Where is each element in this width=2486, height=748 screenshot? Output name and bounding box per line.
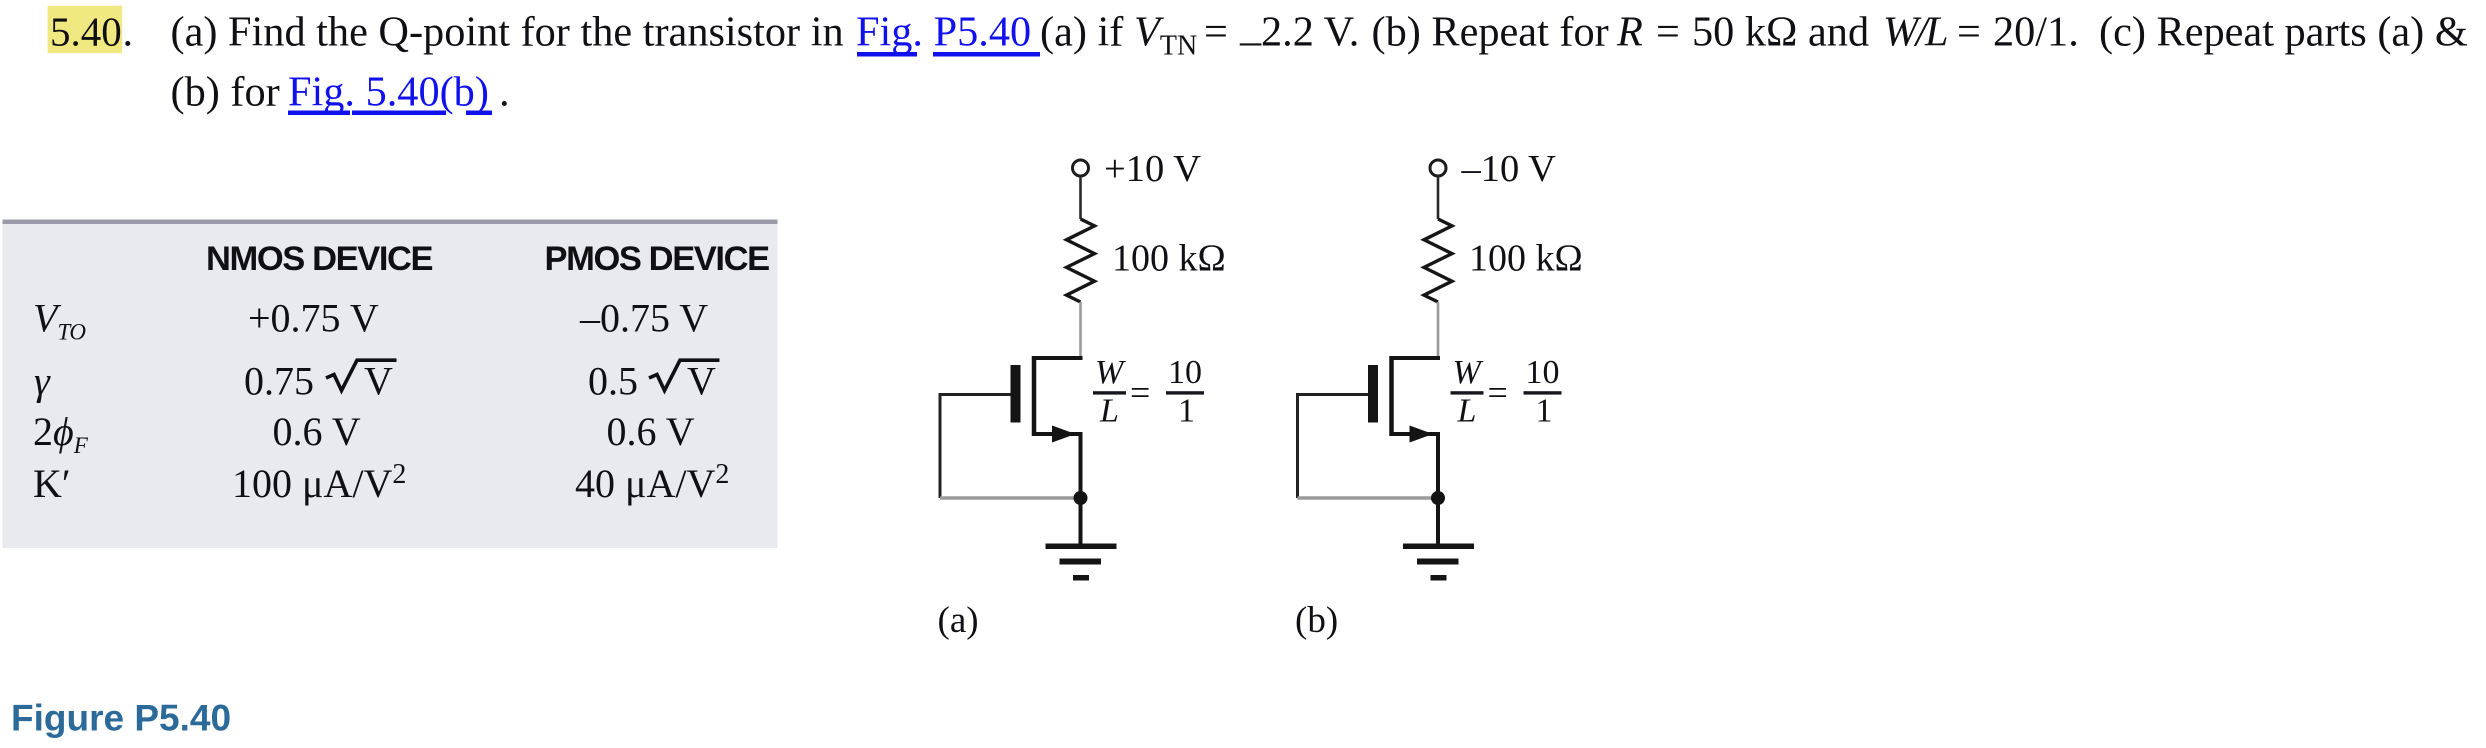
svg-text:NMOS DEVICE: NMOS DEVICE: [206, 240, 433, 278]
ground symbol (a): [1046, 544, 1117, 581]
svg-text:PMOS DEVICE: PMOS DEVICE: [545, 240, 770, 278]
wire resistor to drain (b): [1437, 302, 1440, 357]
resistor R b 100 kOhm: [1424, 219, 1452, 302]
wire resistor to drain (a): [1079, 302, 1082, 357]
problem number highlight: [48, 6, 123, 53]
wire terminal to resistor (b): [1437, 177, 1440, 220]
svg-text:40 μA/V2: 40 μA/V2: [575, 459, 729, 506]
supply terminal node +10 V circuit (a): [1073, 160, 1089, 176]
wire gate loop vertical (b): [1296, 393, 1299, 498]
wire terminal to resistor (a): [1079, 177, 1082, 220]
wire gate loop vertical (a): [939, 393, 942, 498]
hyperlink underline Fig. 5.40(b): [288, 111, 350, 116]
svg-text:=: =: [1488, 373, 1508, 413]
svg-text:+0.75 V: +0.75 V: [248, 296, 379, 341]
hyperlink underline Fig. P5.40: [857, 52, 917, 57]
ground symbol (b): [1403, 544, 1474, 581]
svg-text:–10 V: –10 V: [1461, 148, 1557, 190]
svg-text:K′: K′: [33, 461, 71, 506]
svg-text:γ: γ: [34, 359, 51, 404]
svg-text:0.6 V: 0.6 V: [607, 409, 695, 454]
transistor Mb gate lead: [1296, 393, 1368, 396]
transistor Ma source arrow: [1052, 426, 1076, 443]
resistor R a 100 kOhm: [1067, 219, 1095, 302]
svg-text:Figure P5.40: Figure P5.40: [11, 698, 231, 739]
transistor Ma drain lead: [1034, 356, 1083, 360]
transistor Ma source lead: [1034, 434, 1081, 498]
wire gate loop bottom to source node (b): [1298, 496, 1433, 499]
transistor Mb channel bar: [1389, 356, 1394, 436]
wire gate loop bottom to source node (a): [940, 496, 1075, 499]
svg-text:100 μA/V2: 100 μA/V2: [232, 459, 406, 506]
svg-text:(a): (a): [938, 600, 979, 641]
svg-text:0.6 V: 0.6 V: [273, 409, 361, 454]
wire node to ground (a): [1079, 498, 1083, 544]
svg-text:5.40.(a) Find the Q-point for: 5.40.(a) Find the Q-point for the transi…: [50, 9, 2468, 65]
transistor Mb drain lead: [1392, 356, 1441, 360]
table top border: [3, 220, 778, 225]
svg-text:100 kΩ: 100 kΩ: [1112, 238, 1226, 280]
svg-text:=: =: [1130, 373, 1150, 413]
junction node dot (a): [1074, 491, 1088, 505]
transistor Mb gate bar: [1368, 365, 1378, 423]
svg-text:(b): (b): [1295, 600, 1338, 641]
supply terminal node -10 V circuit (b): [1430, 160, 1446, 176]
W/L = 10/1 label (b): [1451, 354, 1562, 430]
junction node dot (b): [1431, 491, 1445, 505]
svg-text:+10 V: +10 V: [1104, 148, 1201, 190]
transistor Mb source arrow: [1410, 426, 1434, 443]
svg-text:(b) forFig. 5.40(b).: (b) forFig. 5.40(b).: [171, 69, 510, 116]
transistor Ma gate lead: [939, 393, 1011, 396]
transistor Mb source lead: [1392, 434, 1439, 498]
svg-text:100 kΩ: 100 kΩ: [1469, 238, 1583, 280]
wire node to ground (b): [1436, 498, 1440, 544]
device parameter table background: [3, 224, 778, 548]
W/L = 10/1 label (a): [1093, 354, 1204, 430]
transistor Ma gate bar: [1011, 365, 1021, 423]
svg-text:–0.75 V: –0.75 V: [579, 296, 708, 341]
transistor Ma channel bar: [1032, 356, 1037, 436]
